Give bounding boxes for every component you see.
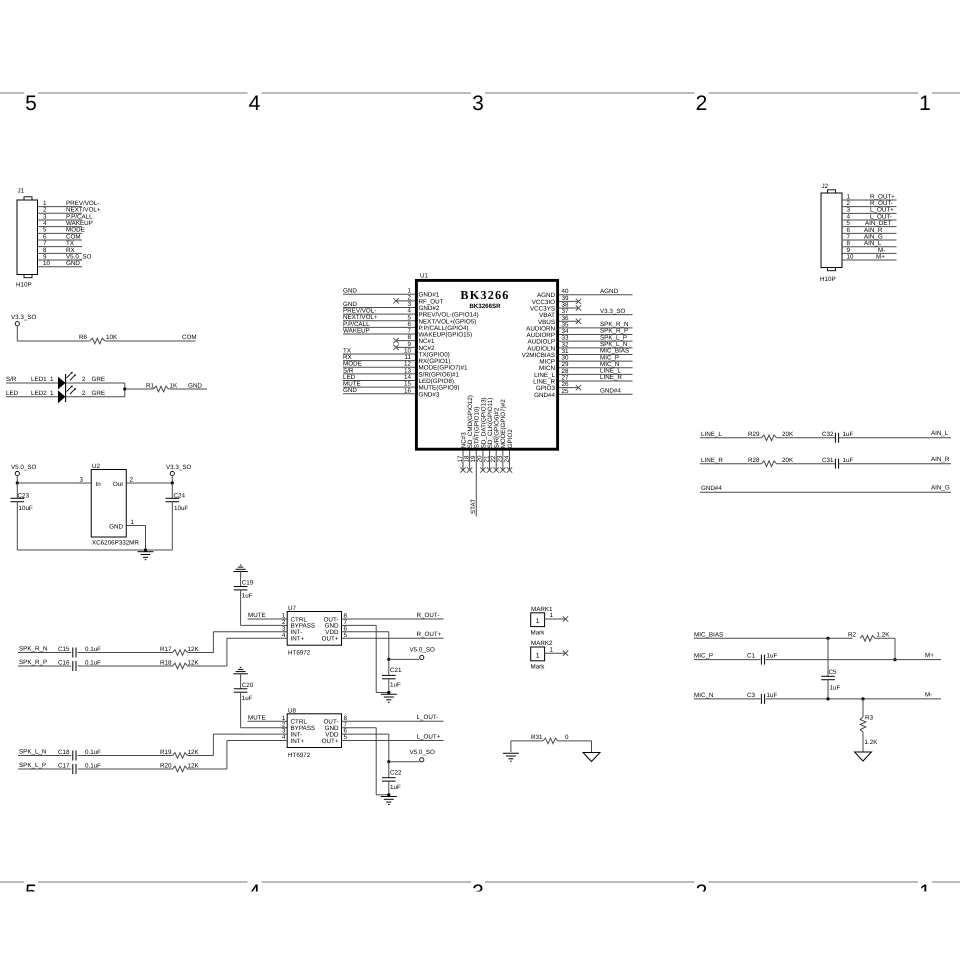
wire S/R net to LED1 — [6, 376, 58, 383]
svg-text:OUT+: OUT+ — [322, 636, 339, 643]
wire to R1 — [125, 388, 154, 390]
svg-text:10K: 10K — [106, 334, 118, 341]
wire U8 INT- branch — [213, 734, 287, 755]
fiducial MARK2 — [531, 640, 554, 671]
amplifier U7 HT6972 — [282, 605, 348, 657]
capacitor C23 10uF — [11, 483, 33, 550]
wire U2 bottom ground bus — [17, 549, 172, 551]
capacitor C22 1uF — [382, 762, 402, 795]
svg-text:20K: 20K — [782, 457, 794, 464]
svg-text:C3: C3 — [747, 692, 756, 699]
svg-text:INT+: INT+ — [291, 738, 305, 745]
capacitor C15 0.1uF — [58, 646, 101, 658]
svg-text:C16: C16 — [58, 660, 70, 667]
svg-text:LINE_L: LINE_L — [701, 431, 722, 438]
J1 pin 3 wire/label P.P/CALL — [38, 213, 94, 220]
svg-text:1: 1 — [550, 612, 554, 619]
wire C15 to R17 — [78, 652, 173, 654]
svg-text:10uF: 10uF — [19, 505, 33, 512]
svg-text:1uF: 1uF — [830, 685, 841, 692]
capacitor C16 0.1uF — [58, 660, 101, 672]
junction LED/R1 — [123, 387, 126, 390]
wire U7 VDD — [342, 632, 389, 660]
net label STAT — [470, 499, 477, 514]
junction R2/MIC_P — [893, 658, 896, 661]
svg-text:Mark: Mark — [531, 664, 546, 671]
svg-text:0: 0 — [565, 734, 569, 741]
ground (left of R31) — [503, 741, 519, 761]
capacitor C31 1uF — [822, 457, 853, 469]
U1 pin 6 (P.P/CALL(GPIO4)) — [343, 321, 468, 332]
svg-text:SPK_L_P: SPK_L_P — [19, 762, 46, 769]
wire C16 to R18 — [78, 665, 173, 667]
net SPK_R_N row — [18, 646, 71, 653]
net label MUTE (U7 CTRL) — [248, 612, 288, 619]
chassis ground (right of R31) — [583, 753, 600, 762]
svg-text:1: 1 — [131, 519, 135, 526]
fiducial MARK1 — [531, 606, 554, 637]
svg-text:16: 16 — [404, 387, 411, 394]
wire R31 to chassis ground — [558, 741, 592, 753]
U1 pin 8 (NC#1) — [393, 334, 435, 345]
U1 pin 23 (MODE(GPIO7)#2) — [497, 399, 508, 473]
wire gnd to C19 — [240, 572, 242, 587]
svg-text:J2: J2 — [822, 183, 829, 190]
power terminal V3.3_SO (right) — [166, 464, 192, 483]
U1 pin 5 (NEXT/VOL+(GPIO5)) — [343, 314, 476, 325]
U1 pin 18 (SD_CMD(GPIO12)) — [463, 395, 474, 473]
svg-text:12K: 12K — [188, 646, 200, 653]
wire LED net to LED2 — [6, 390, 58, 397]
svg-text:L_OUT-: L_OUT- — [417, 714, 439, 721]
ground above C19 — [233, 565, 247, 571]
svg-text:3: 3 — [80, 476, 84, 483]
J1 pin 8 wire/label RX — [38, 247, 83, 254]
svg-text:V5.0_SO: V5.0_SO — [11, 464, 37, 471]
IC U1 BK3266 body — [416, 273, 557, 450]
capacitor C18 0.1uF — [58, 749, 101, 761]
U1 pin 26 (GPIO3) — [536, 381, 581, 392]
resistor R20 12K — [160, 763, 199, 772]
svg-text:R_OUT+: R_OUT+ — [417, 631, 442, 638]
svg-text:1: 1 — [536, 618, 540, 625]
svg-text:MUTE: MUTE — [248, 612, 266, 619]
J1 pin 2 wire/label NEXT/VOL+ — [38, 207, 101, 214]
svg-text:C18: C18 — [58, 749, 70, 756]
net label MUTE (U8 CTRL) — [248, 715, 288, 722]
U1 pin 1 (GND#1) — [343, 288, 440, 299]
U1 pin 34 (AUDIORP) — [527, 328, 633, 339]
U1 pin 25 (GND#4) — [534, 388, 632, 399]
svg-text:S/R: S/R — [6, 376, 17, 383]
svg-text:GND#4: GND#4 — [701, 485, 722, 492]
svg-text:SPK_R_P: SPK_R_P — [19, 659, 47, 666]
svg-text:H10P: H10P — [820, 276, 836, 283]
svg-text:LED2: LED2 — [31, 390, 47, 397]
junction R3/MIC_N — [861, 697, 864, 700]
wire C31 to AIN_R — [839, 456, 951, 464]
U1 pin 27 (LINE_R) — [533, 374, 632, 385]
net LINE_R row — [700, 457, 762, 464]
svg-text:C15: C15 — [58, 646, 70, 653]
wire R20 to U8 INT+ — [188, 768, 227, 770]
net SPK_L_N row — [18, 749, 71, 756]
connector J2 — [820, 183, 842, 283]
U1 pin 3 (GND#2) — [343, 301, 440, 312]
svg-text:LINE_R: LINE_R — [600, 374, 622, 381]
U1 pin 4 (PREV/VOL-(GPIO14)) — [343, 308, 479, 319]
wire MARK1 pin 1 — [545, 612, 569, 622]
resistor R3 1.2K — [860, 699, 878, 752]
U1 pin 12 (MODE(GPIO7)#1) — [343, 361, 468, 372]
svg-text:1.2K: 1.2K — [877, 632, 891, 639]
J2 pin 8 wire/label AIN_L — [842, 240, 897, 247]
U1 pin 14 (LED(GPIO8)) — [343, 374, 454, 385]
U1 pin 24 (GPIO2) — [503, 429, 514, 473]
net SPK_R_P row — [18, 659, 71, 666]
wire U8 GND to ground — [342, 728, 389, 795]
svg-text:R6: R6 — [79, 334, 88, 341]
LED cathode bar (shared) — [65, 374, 67, 402]
U1 subtitle BK3266SR — [469, 303, 501, 310]
resistor R31 0 — [531, 734, 569, 744]
svg-text:2: 2 — [82, 376, 86, 383]
svg-text:C1: C1 — [747, 653, 756, 660]
svg-text:GRE: GRE — [92, 390, 106, 397]
top border zone numbers — [25, 92, 931, 115]
J1 pin 1 wire/label PREV/VOL- — [38, 200, 100, 207]
svg-text:H10P: H10P — [16, 282, 32, 289]
wire U7 OUT+ to R_OUT+ — [342, 631, 444, 638]
U1 pin 28 (LINE_L) — [534, 368, 632, 379]
wire LED1 cathode — [66, 382, 125, 384]
svg-text:1uF: 1uF — [242, 593, 253, 600]
wire gnd to C20 — [240, 674, 242, 689]
junction VDD/C21 — [387, 658, 390, 661]
resistor R17 12K — [160, 646, 199, 655]
wire R29 to C32 — [777, 437, 836, 439]
ground (U8) — [381, 797, 397, 805]
svg-text:Mark: Mark — [531, 630, 546, 637]
wire LED2 cathode — [66, 396, 125, 398]
top border ruler line — [0, 92, 960, 94]
ground (U2) — [138, 552, 154, 560]
svg-text:0.1uF: 0.1uF — [85, 660, 101, 667]
svg-text:L_OUT+: L_OUT+ — [417, 733, 441, 740]
U1 pin 15 (MUTE(GPIO9)) — [343, 381, 459, 392]
svg-text:INT+: INT+ — [291, 636, 305, 643]
svg-text:C19: C19 — [242, 580, 254, 587]
svg-text:R29: R29 — [748, 431, 760, 438]
svg-text:R18: R18 — [160, 660, 172, 667]
svg-text:GND: GND — [66, 260, 80, 267]
svg-text:0.1uF: 0.1uF — [85, 749, 101, 756]
bottom border zone numbers (clipped) — [25, 881, 931, 904]
capacitor C3 1uF — [747, 692, 777, 704]
U1 pin 2 (RF_OUT) — [393, 294, 443, 305]
U1 pin 33 (AUDIOLP) — [528, 334, 633, 345]
wire C32 to AIN_L — [839, 430, 951, 438]
resistor R28 20K — [748, 457, 794, 467]
wire U8 VDD — [342, 734, 389, 762]
J2 pin 7 wire/label AIN_G — [842, 233, 897, 240]
power terminal V5.0_SO (U7) — [389, 647, 435, 660]
svg-text:C21: C21 — [390, 667, 402, 674]
J2 pin 6 wire/label AIN_R — [842, 227, 897, 234]
svg-text:STAT: STAT — [470, 499, 477, 514]
resistor R1 1K — [146, 382, 178, 392]
svg-text:WAKEUP: WAKEUP — [343, 327, 370, 334]
svg-text:XC6206P332MR: XC6206P332MR — [92, 540, 139, 547]
svg-text:U7: U7 — [288, 605, 297, 612]
svg-text:OUT+: OUT+ — [322, 738, 339, 745]
svg-text:R19: R19 — [160, 749, 172, 756]
svg-text:J1: J1 — [18, 188, 25, 195]
junction V5.0/C23 — [16, 481, 19, 484]
svg-text:3: 3 — [472, 92, 484, 115]
power terminal V5.0_SO — [11, 464, 37, 483]
junction VDD/C22 — [387, 760, 390, 763]
U1 pin 31 (V2MICBIAS) — [522, 348, 633, 359]
svg-text:GND: GND — [188, 382, 202, 389]
svg-text:AIN_G: AIN_G — [931, 485, 950, 492]
svg-text:In: In — [96, 481, 102, 488]
ground (U7) — [381, 694, 397, 702]
resistor R6 10K — [79, 334, 118, 344]
svg-text:AIN_R: AIN_R — [931, 456, 950, 463]
capacitor C19 1uF — [234, 580, 254, 600]
J1 pin 4 wire/label WAKEUP — [38, 220, 93, 227]
svg-text:1K: 1K — [170, 382, 178, 389]
U1 pin 32 (AUDIOLN) — [527, 341, 632, 352]
net LINE_L row — [700, 431, 762, 438]
bottom border ruler line — [0, 881, 960, 883]
svg-text:1uF: 1uF — [390, 784, 401, 791]
J2 pin 2 wire/label R_OUT- — [842, 200, 897, 207]
svg-text:R1: R1 — [146, 382, 155, 389]
J2 pin 1 wire/label R_OUT+ — [842, 193, 897, 200]
junction MIC_BIAS/C5 — [826, 637, 829, 640]
svg-text:0.1uF: 0.1uF — [85, 763, 101, 770]
svg-text:AIN_L: AIN_L — [931, 430, 949, 437]
svg-text:V3.3_SO: V3.3_SO — [166, 464, 192, 471]
resistor R19 12K — [160, 749, 199, 758]
wire V3.3_SO to R6 — [17, 340, 89, 342]
svg-text:R28: R28 — [748, 457, 760, 464]
U1 pin 37 (VBAT) — [539, 308, 632, 319]
svg-text:GPIO2: GPIO2 — [507, 429, 514, 449]
junction C5/MIC_N — [826, 697, 829, 700]
J2 pin 3 wire/label L_OUT+ — [842, 207, 897, 214]
resistor R29 20K — [748, 431, 794, 441]
J2 pin 4 wire/label L_OUT- — [842, 213, 897, 220]
U1 pin 38 (VCC3YS) — [530, 301, 581, 312]
svg-text:1uF: 1uF — [843, 431, 854, 438]
svg-text:MIC_N: MIC_N — [694, 692, 713, 699]
wire R6 to COM — [105, 334, 196, 341]
U1 pin 13 (S/R(GPIO6)#1) — [343, 367, 460, 378]
LED LED2 — [58, 385, 105, 403]
svg-text:R2: R2 — [848, 632, 857, 639]
connector J1 — [16, 188, 38, 289]
svg-text:V3.3_SO: V3.3_SO — [11, 314, 37, 321]
U1 pin 20 (SD_DAT(GPIO13)) — [477, 397, 488, 472]
wire U7 OUT- to R_OUT- — [342, 612, 444, 619]
J1 pin 5 wire/label MODE — [38, 227, 85, 234]
wire U8 OUT+ to L_OUT+ — [342, 733, 444, 740]
wire LED join vertical — [124, 383, 126, 397]
LED LED1 — [58, 372, 105, 390]
capacitor C24 10uF — [166, 483, 189, 550]
capacitor C21 1uF — [382, 659, 402, 692]
U1 pin 36 (VBUS) — [538, 315, 581, 326]
wire C20 to U8 BYPASS — [241, 692, 288, 728]
svg-text:12K: 12K — [188, 660, 200, 667]
svg-text:1: 1 — [919, 92, 931, 115]
wire R1 to GND label — [169, 382, 208, 389]
chassis ground (R3) — [855, 752, 872, 761]
U1 pin 35 (AUDIORN) — [526, 321, 632, 332]
resistor R2 1.2K — [848, 632, 890, 642]
capacitor C17 0.1uF — [58, 763, 101, 775]
svg-text:20K: 20K — [782, 431, 794, 438]
J2 pin 10 wire/label M+ — [842, 253, 897, 260]
wire C18 to R19 — [78, 755, 173, 757]
wire R17 to U7 INT- — [188, 652, 214, 654]
wire U7 INT- branch — [213, 632, 287, 653]
svg-text:C32: C32 — [822, 431, 834, 438]
svg-text:1uF: 1uF — [767, 653, 778, 660]
wire R2 to M+ corner — [875, 638, 895, 659]
svg-text:1uF: 1uF — [767, 692, 778, 699]
regulator U2 XC6206P332MR — [91, 463, 139, 547]
svg-text:GND#3: GND#3 — [419, 391, 440, 398]
svg-text:GND: GND — [109, 524, 123, 531]
svg-text:1uF: 1uF — [843, 457, 854, 464]
svg-text:U1: U1 — [420, 273, 429, 280]
svg-text:V5.0_SO: V5.0_SO — [410, 749, 436, 756]
junction C22 ground — [387, 793, 390, 796]
svg-text:12K: 12K — [188, 749, 200, 756]
wire R18 to U7 INT+ — [188, 665, 227, 667]
svg-text:LED1: LED1 — [31, 376, 47, 383]
svg-text:LINE_R: LINE_R — [701, 457, 723, 464]
junction ground bus — [144, 548, 147, 551]
ground above C20 — [233, 667, 247, 673]
svg-text:GND: GND — [343, 288, 357, 295]
wire C17 to R20 — [78, 768, 173, 770]
wire C3 to M- — [766, 691, 941, 699]
svg-text:MUTE: MUTE — [248, 715, 266, 722]
wire to U2 pin 3 — [17, 476, 91, 483]
U1 pin 39 (VCC3IO) — [532, 295, 581, 306]
wire R28 to C31 — [777, 463, 836, 465]
wire C19 to U7 BYPASS — [241, 590, 288, 626]
svg-text:1: 1 — [50, 390, 54, 397]
J1 pin 7 wire/label TX — [38, 240, 83, 247]
U1 pin 40 (AGND) — [537, 288, 633, 299]
svg-text:C5: C5 — [829, 669, 838, 676]
amplifier U8 HT6972 — [282, 707, 348, 759]
U1 pin 10 (TX(GPIO0)) — [343, 347, 450, 358]
J2 pin 5 wire/label AIN_DET — [842, 220, 897, 227]
svg-text:M+: M+ — [925, 652, 934, 659]
svg-text:COM: COM — [182, 334, 197, 341]
U1 pin 30 (MICP) — [539, 354, 632, 365]
wire U8 OUT- to L_OUT- — [342, 714, 444, 721]
svg-text:V3.3_SO: V3.3_SO — [600, 308, 626, 315]
svg-text:C17: C17 — [58, 763, 70, 770]
svg-text:MIC_P: MIC_P — [694, 653, 713, 660]
capacitor C1 1uF — [747, 653, 777, 665]
svg-text:4: 4 — [249, 92, 261, 115]
svg-text:R17: R17 — [160, 646, 172, 653]
svg-text:1: 1 — [550, 646, 554, 653]
svg-text:HT6972: HT6972 — [288, 650, 311, 657]
net MIC_P row — [694, 653, 760, 660]
svg-text:C22: C22 — [390, 769, 402, 776]
wire U7 GND to ground — [342, 625, 389, 692]
J1 pin 9 wire/label V5.0_SO — [38, 253, 92, 260]
J1 pin 10 wire/label GND — [38, 260, 83, 267]
svg-text:SPK_L_N: SPK_L_N — [19, 749, 46, 756]
svg-text:C20: C20 — [242, 682, 254, 689]
svg-text:1uF: 1uF — [242, 695, 253, 702]
svg-text:5: 5 — [25, 92, 37, 115]
wire gnd to R31 — [511, 740, 543, 742]
svg-text:2: 2 — [130, 476, 134, 483]
svg-text:25: 25 — [562, 388, 569, 395]
wire U8 INT+ branch — [227, 741, 287, 770]
svg-text:1: 1 — [50, 376, 54, 383]
U1 pin 9 (NC#2) — [393, 341, 435, 352]
svg-text:M+: M+ — [876, 253, 885, 260]
U1 pin 21 (SD_CLK(GPIO11)) — [483, 398, 494, 473]
svg-text:12K: 12K — [188, 763, 200, 770]
svg-text:1.2K: 1.2K — [865, 739, 879, 746]
svg-text:HT6972: HT6972 — [288, 752, 311, 759]
wire R19 to U8 INT- — [188, 755, 214, 757]
net MIC_N row — [694, 692, 760, 699]
U1 pin 17 (NC#3) — [457, 432, 468, 473]
U1 pin 16 (GND#3) — [343, 387, 440, 398]
svg-text:GND: GND — [343, 387, 357, 394]
svg-text:1uF: 1uF — [390, 682, 401, 689]
svg-text:2: 2 — [696, 92, 708, 115]
net MIC_BIAS row — [694, 631, 853, 638]
svg-text:M-: M- — [925, 691, 932, 698]
svg-text:10: 10 — [43, 260, 50, 267]
svg-text:R3: R3 — [865, 715, 874, 722]
J1 pin 6 wire/label COM — [38, 233, 83, 240]
svg-text:LED: LED — [6, 390, 19, 397]
U1 pin 7 (WAKEUP(GPIO15)) — [343, 327, 472, 338]
svg-text:0.1uF: 0.1uF — [85, 646, 101, 653]
U1 pin 11 (RX(GPIO1)) — [343, 354, 450, 365]
svg-text:C31: C31 — [822, 457, 834, 464]
wire C1 to M+ — [766, 652, 941, 660]
net GND#4 to AIN_G row — [700, 485, 951, 493]
svg-text:GND#4: GND#4 — [600, 388, 621, 395]
J2 pin 9 wire/label M- — [842, 247, 897, 254]
junction C21 ground — [387, 691, 390, 694]
wire U7 INT+ branch — [227, 638, 287, 666]
U1 pin 19 (STAT(GPIO10)) — [470, 407, 481, 517]
svg-text:10: 10 — [847, 253, 854, 260]
svg-text:R20: R20 — [160, 763, 172, 770]
svg-text:GRE: GRE — [92, 376, 106, 383]
svg-text:MIC_BIAS: MIC_BIAS — [694, 631, 723, 638]
